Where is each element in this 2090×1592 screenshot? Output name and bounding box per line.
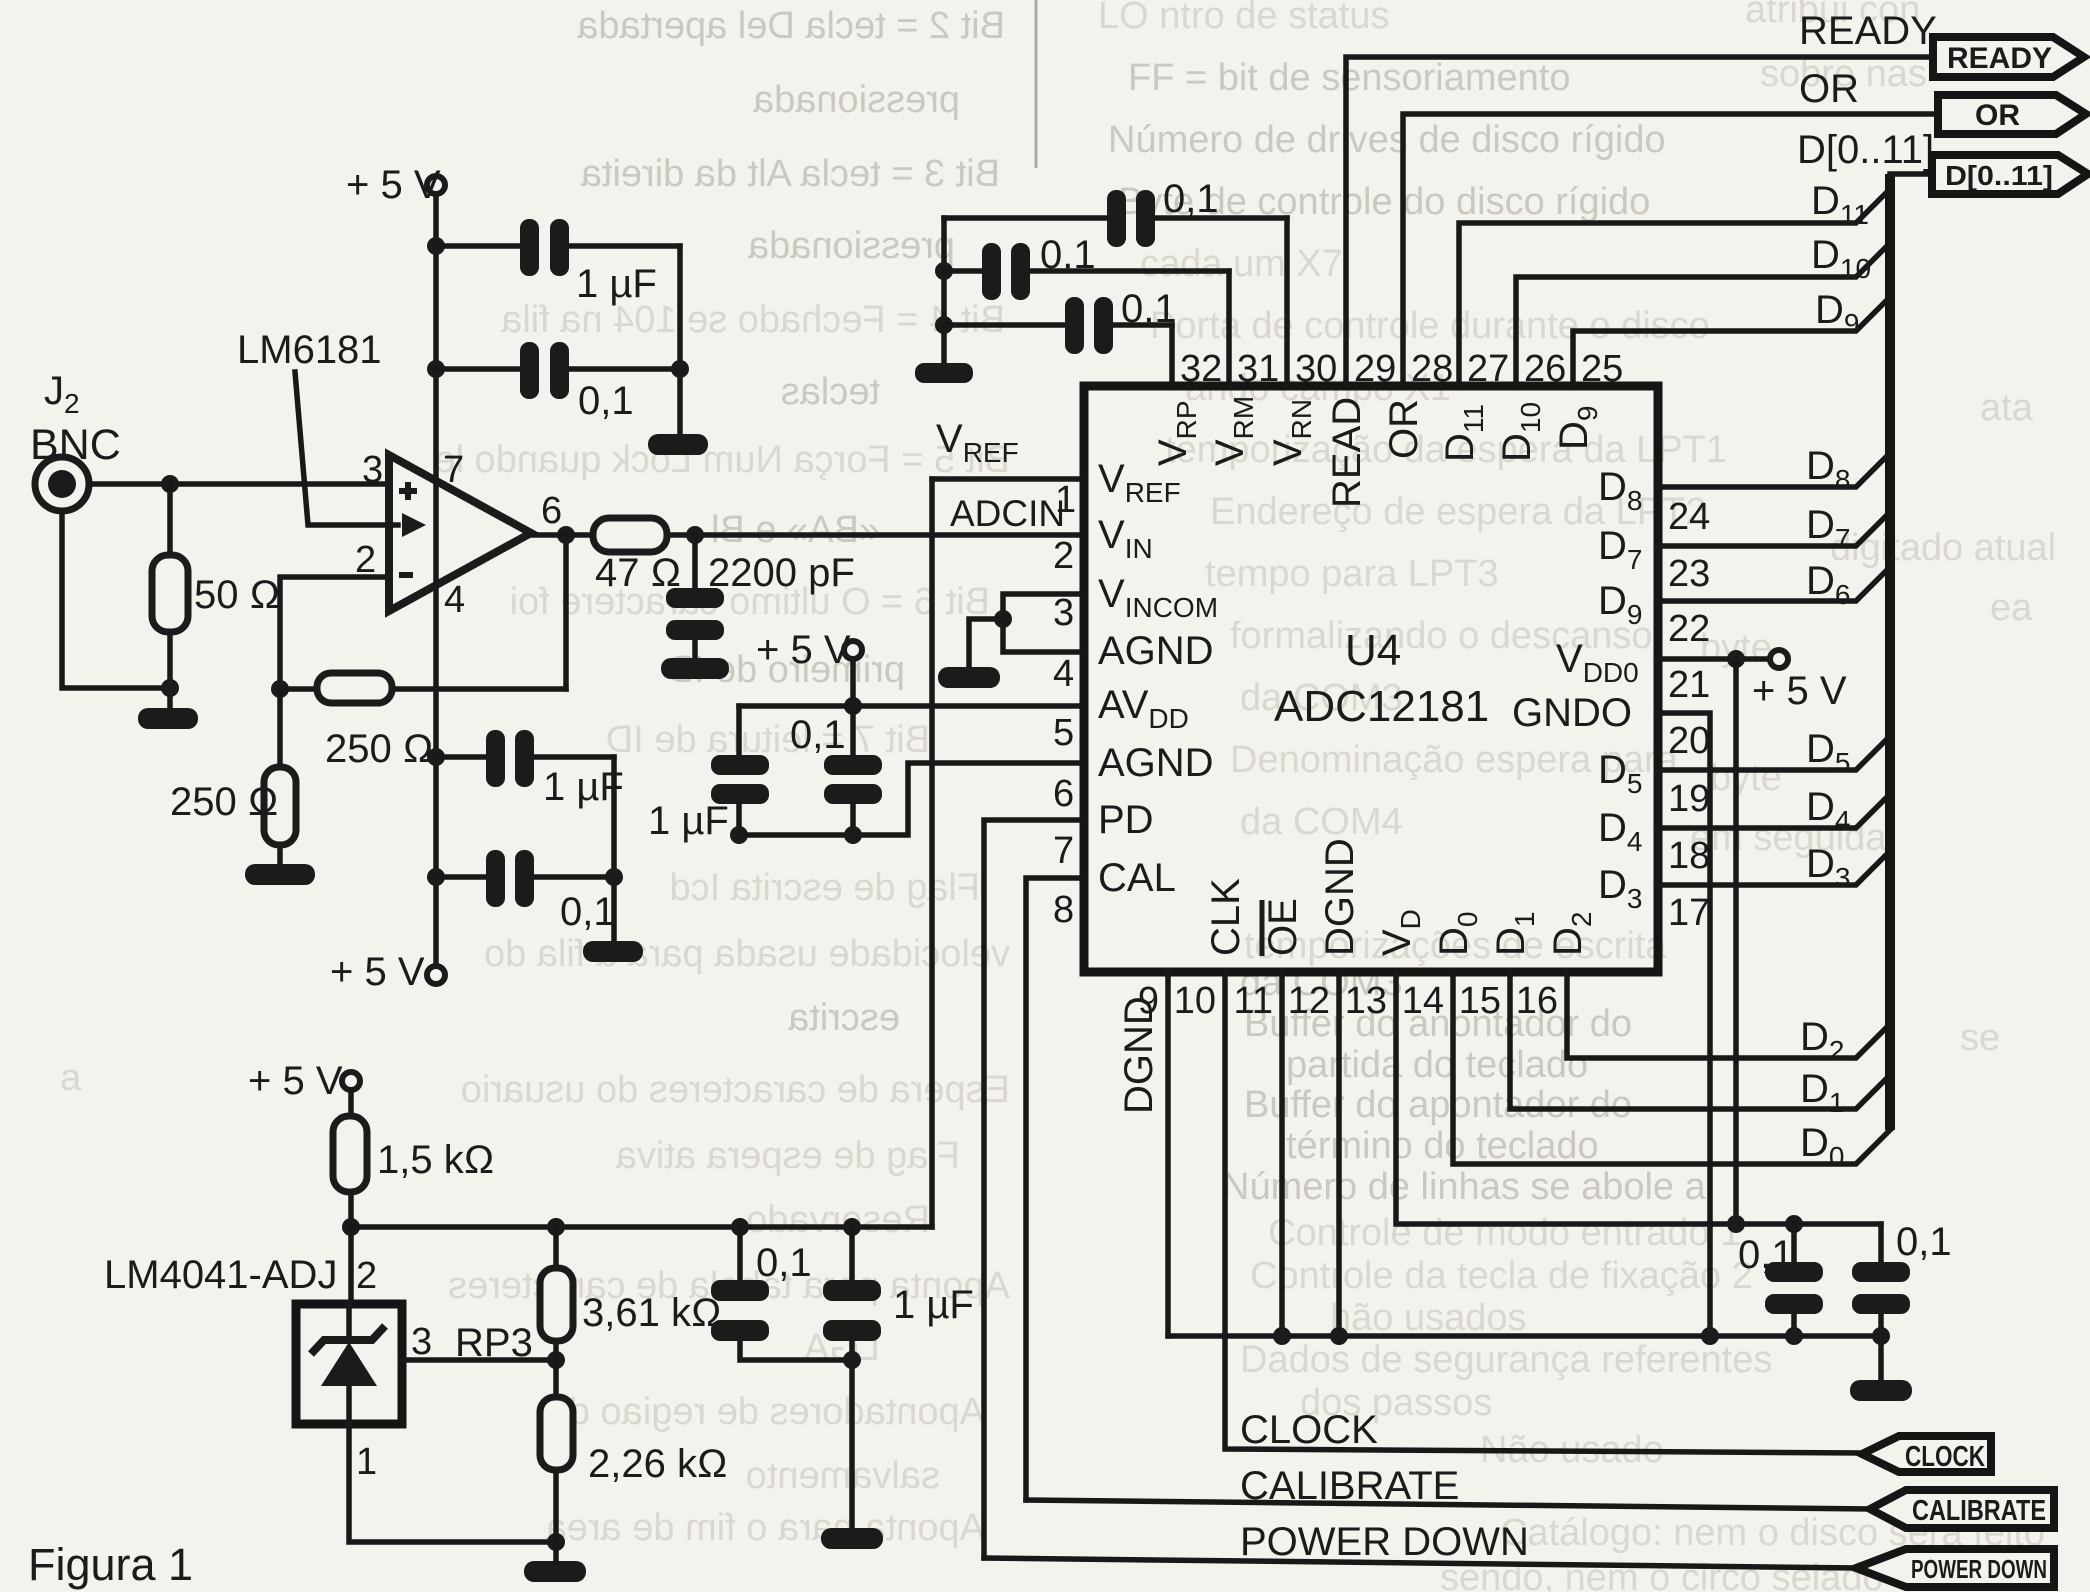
wire bus to D tag [1890, 171, 1932, 177]
svg-text:byte: byte [1710, 757, 1782, 799]
wire CALIBRATE [1026, 1500, 1870, 1509]
wire pin 26 D10 [1516, 243, 1890, 386]
svg-text:digitado atual: digitado atual [1830, 527, 2056, 569]
svg-text:CLOCK: CLOCK [1905, 1441, 1985, 1473]
leader arrowhead [402, 513, 426, 537]
svg-text:1: 1 [356, 1441, 377, 1483]
wire LM4041 anode down [349, 1424, 556, 1542]
svg-text:Bit 7 = leitura de ID: Bit 7 = leitura de ID [606, 719, 930, 761]
wire pin 32 VRP [1169, 325, 1175, 386]
node junction VRP cap [935, 316, 953, 334]
svg-text:10: 10 [1174, 980, 1216, 1022]
wire 0,1 AVDD stubs [850, 706, 856, 755]
wire AVDD supply [850, 659, 856, 706]
op-amp plus sign [399, 482, 417, 500]
node junction 1uF top-left [427, 237, 445, 255]
resistor 250 ohm feedback [317, 673, 392, 703]
svg-text:2200 pF: 2200 pF [708, 551, 855, 595]
svg-text:1: 1 [1055, 479, 1076, 521]
svg-text:ADCIN: ADCIN [950, 493, 1065, 534]
svg-text:LO ntro de status: LO ntro de status [1098, 0, 1390, 37]
svg-text:D[0..11]: D[0..11] [1945, 160, 2053, 191]
pin name labels right column [1512, 465, 1642, 914]
svg-text:3: 3 [411, 1321, 432, 1363]
node junction bottom [547, 1533, 565, 1551]
svg-text:FF = bit de sensoriamento: FF = bit de sensoriamento [1128, 57, 1571, 99]
svg-text:OR: OR [1975, 99, 2020, 132]
svg-text:2: 2 [1053, 535, 1074, 577]
svg-text:47 Ω: 47 Ω [595, 551, 681, 595]
svg-text:4: 4 [1053, 653, 1074, 695]
svg-text:0,1: 0,1 [578, 379, 634, 423]
connector J2 BNC [35, 457, 89, 511]
ground of VR cluster [915, 363, 973, 383]
wire VREF rail [351, 1224, 932, 1230]
wire pin 21 VDD0 [1658, 656, 1770, 662]
svg-text:CLOCK: CLOCK [1240, 1408, 1378, 1452]
capacitor 1uF mid plates [486, 730, 505, 787]
ground below 50 ohm [138, 708, 198, 729]
wire pin 23 D7 [1658, 512, 1890, 546]
svg-text:Porta de controle durante o di: Porta de controle durante o disco [1150, 305, 1710, 347]
wire pin 20 GNDO [1658, 713, 1710, 1336]
wire 250 ohm shunt lead [277, 689, 283, 767]
svg-text:1 µF: 1 µF [576, 262, 657, 306]
wire right 0,1 stubs [1878, 1224, 1884, 1262]
wire pin 3 VINCOM / pin 4 AGND tie [1003, 594, 1084, 652]
wire 3,61k leads [553, 1227, 559, 1268]
wire 2200pF lead [692, 535, 698, 590]
svg-text:Dados de segurança referentes: Dados de segurança referentes [1240, 1339, 1772, 1381]
node junction GNDO rail [1701, 1327, 1719, 1345]
wire pin 24 D8 [1658, 453, 1890, 487]
tag READY [1933, 37, 2084, 77]
ground reference caps [821, 1528, 883, 1549]
svg-text:se: se [1960, 1017, 2000, 1059]
wire pin 15 D1 [1510, 972, 1890, 1109]
svg-text:+ 5 V: + 5 V [346, 163, 441, 207]
wire 0,1 mid leads [436, 874, 486, 880]
wire 2200pF to ground [692, 640, 698, 660]
wire pin 3 to divider [402, 1357, 556, 1363]
svg-text:7: 7 [1053, 830, 1074, 872]
capacitor 0,1 digital right plates [1852, 1262, 1910, 1282]
svg-text:a: a [60, 1057, 82, 1099]
svg-text:4: 4 [444, 579, 465, 621]
svg-text:Espera de caracteres do usuari: Espera de caracteres do usuario [461, 1069, 1010, 1111]
svg-text:pressionada: pressionada [752, 79, 960, 121]
wire pin 8 CAL [1026, 878, 1084, 1500]
terminal +5V reference [342, 1072, 360, 1090]
svg-text:16: 16 [1516, 980, 1558, 1022]
capacitor 0,1 reference plates [711, 1280, 769, 1301]
svg-text:5: 5 [1053, 712, 1074, 754]
svg-text:+ 5 V: + 5 V [248, 1059, 343, 1103]
svg-text:Número de drives de disco rígi: Número de drives de disco rígido [1108, 119, 1666, 161]
svg-text:3: 3 [1053, 592, 1074, 634]
terminal +5V below op-amp [427, 966, 445, 984]
wire BNC shield down and across [62, 511, 170, 688]
svg-text:31: 31 [1237, 348, 1279, 390]
svg-text:21: 21 [1668, 664, 1710, 706]
svg-text:CALIBRATE: CALIBRATE [1912, 1495, 2046, 1527]
svg-text:formalizando o descanso: formalizando o descanso [1230, 615, 1652, 657]
svg-text:Controle da tecla de fixação 2: Controle da tecla de fixação 2 [1250, 1255, 1753, 1297]
supply rail through op-amp (pins 7 and 4) [433, 194, 439, 966]
svg-text:U4: U4 [1345, 626, 1401, 675]
wire pin 22 D6 [1658, 567, 1890, 601]
svg-text:Reservado: Reservado [746, 1199, 930, 1241]
node output junction [557, 526, 575, 544]
svg-text:30: 30 [1295, 348, 1337, 390]
svg-text:7: 7 [443, 449, 464, 491]
data bus D[0..11] [1885, 174, 1895, 1130]
wire feedback resistor leads [280, 686, 317, 692]
wire pin 30 VRN [1284, 218, 1290, 386]
svg-text:GNDO: GNDO [1512, 691, 1632, 735]
svg-text:PD: PD [1098, 798, 1154, 842]
wire op-amp output to 47 ohm [531, 532, 593, 538]
svg-text:250 Ω: 250 Ω [325, 727, 434, 771]
node junction 1uF ref top [843, 1218, 861, 1236]
wire pin 11 OE down [1279, 972, 1285, 1336]
svg-text:READY: READY [1799, 9, 1937, 53]
svg-text:READ: READ [1325, 397, 1369, 508]
tag POWER DOWN [1856, 1549, 2054, 1587]
tag OR [1938, 95, 2086, 134]
wire VREF vertical to reference [929, 479, 935, 1227]
node junction 1uF ref bottom [843, 1351, 861, 1369]
svg-text:14: 14 [1402, 980, 1444, 1022]
svg-text:250 Ω: 250 Ω [170, 780, 279, 824]
node junction 0,1 left rail [1785, 1327, 1803, 1345]
wire pin 27 D11 [1459, 189, 1890, 386]
svg-text:AGND: AGND [1098, 629, 1214, 673]
node junction 1uF AVDD bottom [730, 826, 748, 844]
svg-text:15: 15 [1459, 980, 1501, 1022]
capacitor 0,1 VRM plates [982, 243, 1001, 300]
terminal +5V VDD0 [1770, 650, 1788, 668]
wire pin 25 D9 [1573, 297, 1890, 386]
node junction 0,1 ref [731, 1218, 749, 1236]
ground at VINCOM [938, 667, 1000, 688]
wire pin 16 D2 [1567, 972, 1890, 1058]
svg-text:13: 13 [1345, 980, 1387, 1022]
svg-text:27: 27 [1467, 348, 1509, 390]
wire 47 ohm to ADCIN node [667, 532, 1084, 538]
node junction VDD0 [1727, 650, 1745, 668]
svg-text:ea: ea [1990, 587, 2033, 629]
wire 1uF AVDD bottom stub [736, 804, 742, 835]
wire VDD0 vertical [1733, 659, 1739, 1224]
wire 0,1 VRN leads [944, 215, 1107, 221]
wire pin 10 CLK down to CLOCK [1225, 972, 1862, 1453]
ground below 250 ohm [245, 864, 315, 885]
wire left 0,1 stubs [1791, 1224, 1797, 1262]
node junction 0,1 top-left [427, 360, 445, 378]
zener diode symbol [311, 1304, 385, 1424]
op-amp U1 LM6181 [389, 455, 531, 611]
svg-text:LM6181: LM6181 [237, 328, 382, 372]
pin numbers 1-8 (left) [1053, 479, 1076, 931]
leader line from LM6181 label [295, 372, 398, 525]
svg-text:1 µF: 1 µF [648, 799, 729, 843]
svg-text:2: 2 [356, 1255, 377, 1297]
node junction VRM cap [935, 262, 953, 280]
pin name labels left column [1098, 457, 1218, 900]
wire pin 31 VRM [1226, 271, 1232, 386]
svg-text:2: 2 [355, 539, 376, 581]
wire 1,5k leads [348, 1090, 354, 1116]
svg-text:OR: OR [1799, 67, 1859, 111]
capacitor 1uF reference plates [823, 1280, 881, 1301]
pin numbers 24-17 (right) [1668, 496, 1710, 934]
pin numbers 32-25 (top) [1180, 348, 1623, 390]
svg-text:partida do teclado: partida do teclado [1286, 1044, 1588, 1086]
resistor 250 ohm to ground [264, 767, 296, 845]
terminal +5V top [427, 176, 445, 194]
node junction VREF rail left [342, 1218, 360, 1236]
svg-text:Figura 1: Figura 1 [28, 1539, 193, 1590]
resistor 1,5 kohm [333, 1116, 367, 1192]
wire 0,1 ref stubs [737, 1227, 743, 1280]
wire 0,1 top-left leads [436, 366, 520, 372]
svg-text:OR: OR [1382, 399, 1426, 459]
svg-text:0,1: 0,1 [1040, 233, 1096, 277]
svg-text:1,5 kΩ: 1,5 kΩ [377, 1138, 494, 1182]
pin name labels bottom row (rotated) [1204, 838, 1597, 956]
tag D[0..11] [1932, 155, 2088, 194]
node junction OE rail [1273, 1327, 1291, 1345]
wire pin 12 DGND down [1336, 972, 1342, 1336]
IC U4 ADC12181 body [1084, 386, 1658, 972]
wire VINCOM tie to ground [969, 619, 1003, 669]
wire pin 28 OR to OR tag [1403, 114, 1938, 386]
svg-text:Bit 5 = Força Num Lock quando: Bit 5 = Força Num Lock quando le [434, 439, 1010, 481]
svg-text:12: 12 [1288, 980, 1330, 1022]
node junction 0,1 right rail [1872, 1327, 1890, 1345]
wire 1uF mid leads [436, 754, 486, 760]
svg-text:0,1: 0,1 [560, 890, 616, 934]
svg-text:3: 3 [362, 449, 383, 491]
svg-text:0,1: 0,1 [1896, 1220, 1952, 1264]
svg-text:11: 11 [1234, 980, 1273, 1022]
column rule at top center [1035, 0, 1038, 168]
diode U3 LM4041 box [296, 1304, 402, 1424]
pin name labels top row (rotated) [1151, 396, 1603, 508]
terminal +5V AVDD [844, 641, 862, 659]
svg-text:Buffer do apontador do: Buffer do apontador do [1244, 1084, 1632, 1126]
svg-text:término do teclado: término do teclado [1286, 1125, 1599, 1167]
wire VREF pin 1 [932, 476, 1084, 482]
svg-text:D[0..11]: D[0..11] [1797, 128, 1934, 172]
svg-text:17: 17 [1668, 892, 1710, 934]
svg-text:Bit 3 = tecla Alt da direita: Bit 3 = tecla Alt da direita [580, 153, 1000, 195]
svg-text:salvamento: salvamento [746, 1455, 940, 1497]
svg-text:0,1: 0,1 [1163, 177, 1219, 221]
node junction at 50-ohm bottom [161, 679, 179, 697]
svg-text:ADC12181: ADC12181 [1274, 682, 1489, 731]
svg-text:6: 6 [1053, 773, 1074, 815]
svg-text:«BA» e Bl: «BA» e Bl [711, 509, 880, 551]
tag CLOCK [1862, 1436, 1991, 1472]
svg-text:2,26 kΩ: 2,26 kΩ [588, 1442, 728, 1486]
svg-text:+ 5 V: + 5 V [330, 950, 425, 994]
svg-text:pressionada: pressionada [747, 225, 955, 267]
node junction 1uF mid [427, 748, 445, 766]
capacitor cluster VRP/VRM/VRN: ground riser [941, 218, 947, 363]
svg-text:3,61 kΩ: 3,61 kΩ [582, 1291, 722, 1335]
wire AVDD left drop to 1uF [736, 706, 742, 755]
svg-text:1 µF: 1 µF [893, 1283, 974, 1327]
wire pin 13 VD down to VDD0 rail [1396, 972, 1881, 1224]
svg-text:ata: ata [1980, 387, 2034, 429]
node junction 0,1 AVDD bottom [844, 826, 862, 844]
svg-text:teclas: teclas [781, 371, 880, 413]
ground reference block [524, 1561, 586, 1582]
svg-text:tempo para LPT3: tempo para LPT3 [1205, 553, 1499, 595]
svg-text:50 Ω: 50 Ω [194, 573, 280, 617]
node feedback junction [271, 680, 289, 698]
svg-text:0,1: 0,1 [1738, 1233, 1794, 1277]
wire pin 9 DGND down [1165, 972, 1171, 1336]
node junction left 0,1 top [1785, 1215, 1803, 1233]
svg-text:AGND: AGND [1098, 741, 1214, 785]
wire pin 7 PD [984, 820, 1084, 1558]
svg-text:LM4041-ADJ: LM4041-ADJ [104, 1253, 337, 1297]
svg-text:20: 20 [1668, 720, 1710, 762]
node junction 3,61k top [547, 1218, 565, 1236]
svg-text:28: 28 [1411, 348, 1453, 390]
node junction after 47 ohm [686, 526, 704, 544]
svg-text:0,1: 0,1 [1121, 287, 1177, 331]
svg-text:32: 32 [1180, 348, 1222, 390]
svg-text:OE: OE [1261, 898, 1305, 956]
wire 0,1 VRM leads [944, 268, 982, 274]
svg-text:18: 18 [1668, 835, 1710, 877]
node junction VDD0 rail meet [1727, 1215, 1745, 1233]
ground below mid caps [583, 941, 643, 962]
wire pin 18 D4 [1658, 794, 1890, 828]
wire pin 14 D0 [1453, 972, 1890, 1164]
svg-text:POWER DOWN: POWER DOWN [1240, 1520, 1529, 1564]
wire 1uF top-left leads [436, 243, 520, 249]
resistor 3,61 kohm [540, 1268, 573, 1341]
resistor 2,26 kohm [540, 1397, 573, 1470]
svg-text:CAL: CAL [1098, 856, 1176, 900]
svg-text:Bit 2 = tecla Del apertada: Bit 2 = tecla Del apertada [576, 5, 1005, 47]
capacitor 1uF top-left plates [520, 219, 539, 276]
tag CALIBRATE [1870, 1490, 2054, 1528]
node junction at 50-ohm top [161, 475, 179, 493]
node junction right vertical [671, 360, 689, 378]
svg-text:6: 6 [541, 490, 562, 532]
svg-text:+ 5 V: + 5 V [1752, 669, 1847, 713]
svg-text:+ 5 V: + 5 V [756, 628, 851, 672]
capacitor 1uF AVDD plates [711, 755, 769, 775]
wire pin 29 READ to READY [1346, 57, 1933, 386]
ground digital [1850, 1380, 1912, 1401]
svg-text:0,1: 0,1 [790, 713, 846, 757]
wire right vertical of mid caps [611, 757, 617, 941]
wire DGND rail [1168, 1333, 1881, 1339]
node junction divider tap [547, 1351, 565, 1369]
capacitor 0,1 mid plates [486, 850, 505, 907]
svg-text:escrita: escrita [787, 997, 900, 1039]
svg-text:24: 24 [1668, 496, 1710, 538]
svg-text:26: 26 [1524, 348, 1566, 390]
wire 2,26k leads [553, 1360, 559, 1397]
wire AVDD rail to pin 5 [739, 703, 1084, 709]
svg-text:POWER DOWN: POWER DOWN [1911, 1554, 2047, 1584]
svg-text:CLK: CLK [1204, 878, 1248, 956]
svg-text:Apontadores de regiao de: Apontadores de regiao de [548, 1391, 985, 1433]
node junction AVDD [844, 697, 862, 715]
pin numbers 9-16 (bottom) [1138, 980, 1558, 1022]
wire 1uF ref stubs [849, 1227, 855, 1280]
wire 50-ohm leads [167, 484, 173, 555]
svg-text:da COM4: da COM4 [1240, 801, 1403, 843]
wire pin 17 D3 [1658, 851, 1890, 885]
svg-text:hão usados: hão usados [1330, 1297, 1527, 1339]
wire right vertical of top-left caps [677, 246, 683, 434]
ground below 2200pF [661, 658, 729, 679]
node junction VINCOM tie [994, 610, 1012, 628]
svg-text:0,1: 0,1 [756, 1241, 812, 1285]
svg-text:BNC: BNC [30, 421, 121, 469]
wire AGND return rail [739, 763, 1084, 835]
wire POWER DOWN [984, 1558, 1856, 1568]
svg-text:23: 23 [1668, 553, 1710, 595]
capacitor 0,1 VRN plates [1107, 190, 1126, 247]
capacitor 2200pF plates [666, 588, 724, 608]
op-amp minus sign [399, 572, 413, 578]
capacitor 0,1 digital left plates [1765, 1262, 1823, 1282]
svg-text:19: 19 [1668, 778, 1710, 820]
capacitor 0,1 VRP plates [1065, 297, 1084, 354]
svg-text:22: 22 [1668, 608, 1710, 650]
svg-text:Número de linhas se abole a: Número de linhas se abole a [1222, 1166, 1707, 1208]
wire 0,1 VRP leads [944, 322, 1065, 328]
svg-text:READY: READY [1947, 42, 2052, 75]
wire feedback vertical to output [563, 535, 569, 689]
node junction 0,1 mid [427, 868, 445, 886]
svg-text:8: 8 [1053, 889, 1074, 931]
capacitor 0,1 AVDD plates [824, 755, 882, 775]
capacitor 0,1 top-left plates [520, 342, 539, 399]
svg-text:Aponta para o fim de area: Aponta para o fim de area [545, 1507, 985, 1549]
node junction mid caps [605, 868, 623, 886]
resistor 50 ohm [152, 555, 188, 632]
svg-text:Flag de espera ativa: Flag de espera ativa [615, 1135, 960, 1177]
wire op-amp pin 2 to feedback node [280, 577, 389, 689]
ground below top-left caps [648, 434, 708, 455]
svg-text:29: 29 [1354, 348, 1396, 390]
wire pin 19 D5 [1658, 736, 1890, 770]
svg-text:25: 25 [1581, 348, 1623, 390]
svg-text:DGND: DGND [1117, 996, 1161, 1114]
wire BNC to op-amp pin 3 [89, 481, 389, 487]
svg-text:cada um X7: cada um X7 [1140, 243, 1343, 285]
svg-text:DGND: DGND [1318, 838, 1362, 956]
resistor 47 ohm [593, 518, 667, 552]
node junction DGND rail [1330, 1327, 1348, 1345]
